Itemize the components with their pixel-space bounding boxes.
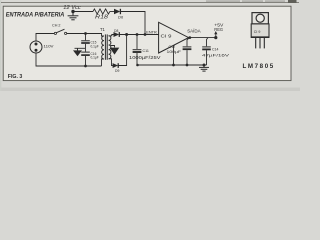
svg-text:REG: REG <box>214 27 223 32</box>
node battery input <box>71 10 74 13</box>
ground GND4 (caps midpoint) <box>73 48 82 56</box>
capacitor C14 <box>202 38 211 65</box>
wire secondary bottom lead <box>109 59 113 66</box>
wire source bottom rail <box>36 53 102 66</box>
wire rectifier output to regulator input <box>119 34 158 36</box>
wire secondary top lead <box>109 35 114 36</box>
svg-text:CH 2: CH 2 <box>52 22 61 27</box>
wire D6 to battery feed corner <box>121 12 145 35</box>
node C11 tap <box>136 33 139 36</box>
svg-text:1000µF/25V: 1000µF/25V <box>129 55 161 60</box>
node C12 on rail <box>186 64 189 67</box>
svg-text:100µF: 100µF <box>167 50 182 54</box>
wire node to R18 <box>75 11 94 13</box>
wire primary bottom lead <box>102 59 105 66</box>
svg-text:110V: 110V <box>44 44 54 49</box>
ground GND1 (battery input) <box>68 12 79 20</box>
ground GND3 (main) <box>199 65 209 71</box>
svg-text:D9: D9 <box>115 69 119 73</box>
diode D8 <box>114 32 120 37</box>
capacitor C15 <box>81 34 90 49</box>
svg-text:C12: C12 <box>169 45 176 49</box>
node battery feed junction <box>144 33 147 36</box>
svg-text:CI 9: CI 9 <box>161 33 173 38</box>
svg-text:12 Vcc: 12 Vcc <box>63 5 81 11</box>
wire primary top lead <box>99 34 104 37</box>
capacitor C11 <box>133 35 142 66</box>
node ground on rail <box>203 64 206 67</box>
resistor R18 <box>93 9 110 14</box>
svg-text:C14: C14 <box>212 48 218 52</box>
svg-text:0,1µF: 0,1µF <box>91 56 99 60</box>
wire R18 to D6 <box>110 11 114 13</box>
switch CH2 <box>54 29 66 34</box>
op-amp style regulator CI9 triangle <box>159 22 189 53</box>
transformer T1 <box>102 34 111 59</box>
capacitor C12 <box>183 38 192 65</box>
svg-text:R18: R18 <box>95 15 108 21</box>
svg-text:0,1µF: 0,1µF <box>91 44 99 48</box>
wire regulator output <box>189 37 216 39</box>
svg-text:D8: D8 <box>114 29 118 33</box>
svg-text:D6: D6 <box>118 15 124 20</box>
svg-text:ENTRADA P/BATERIA: ENTRADA P/BATERIA <box>6 11 65 18</box>
wire regulator common lead <box>173 45 175 65</box>
page header print <box>206 0 297 3</box>
wire D9 output up to node <box>118 35 126 66</box>
node rectifier junction <box>125 33 128 36</box>
svg-text:FIG. 3: FIG. 3 <box>8 74 22 80</box>
svg-text:ENTR: ENTR <box>146 30 157 35</box>
node output terminal <box>214 36 217 39</box>
svg-text:CI 9: CI 9 <box>254 30 261 34</box>
IC package CI9 TO-220 <box>251 13 269 49</box>
ground GND2 (center tap) <box>110 48 120 55</box>
svg-text:C11: C11 <box>143 49 149 53</box>
node C15 tap <box>84 32 87 35</box>
wire source top to switch <box>36 34 54 42</box>
node C11 on rail <box>136 64 139 67</box>
svg-text:47µF/16V: 47µF/16V <box>202 52 229 57</box>
ac source 110V <box>30 41 42 53</box>
+5V REG arrow <box>214 31 217 38</box>
diode D9 <box>113 63 119 68</box>
svg-text:LM7805: LM7805 <box>243 63 275 70</box>
diode D6 <box>114 9 120 14</box>
wire caps midpoint to ground <box>75 47 86 49</box>
svg-text:T1: T1 <box>100 27 106 32</box>
node regulator common on rail <box>172 64 175 67</box>
wire secondary center tap <box>111 46 115 48</box>
node output apex <box>188 36 191 39</box>
node C16 on bottom rail <box>84 65 87 68</box>
capacitor C16 <box>81 48 90 66</box>
page header rule <box>1 2 299 4</box>
ground rail <box>137 64 207 66</box>
wire switch to transformer <box>67 33 99 35</box>
svg-text:SAÍDA: SAÍDA <box>187 27 201 34</box>
